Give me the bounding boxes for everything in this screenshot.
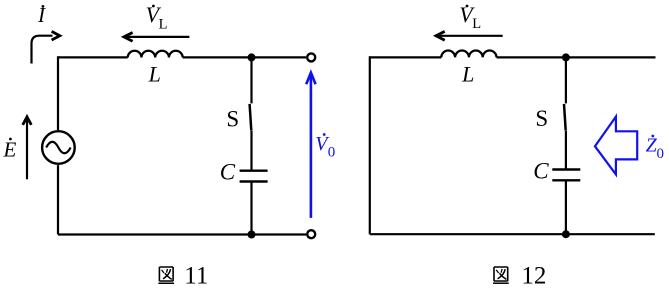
label S (fig11) [226,107,239,132]
label VL dot-V sub L (fig11) [146,2,168,33]
voltage arrow V0 (fig11, blue) [306,73,315,218]
junction node top (fig12) [562,53,570,61]
wire switch-branch upper (fig12) [565,57,567,103]
terminal bottom (fig11) [307,230,315,238]
wire top-left segment (fig11) [58,56,128,58]
terminal top (fig11) [307,53,315,61]
junction node bottom (fig12) [562,230,570,238]
svg-text:L: L [472,16,481,32]
wire bottom (fig12) [370,233,655,235]
svg-text:0: 0 [657,146,665,162]
svg-text:S: S [535,106,548,131]
switch S blade (fig11) [250,104,252,131]
svg-text:L: L [159,17,168,33]
caption glyph 図 (fig11) [158,267,174,283]
current arrow I (fig11) [32,31,60,63]
label I-dot (fig11) [37,3,46,27]
wire left vertical (fig12) [369,56,371,234]
wire capacitor-to-bottom (fig11) [250,181,252,234]
svg-text:L: L [461,61,474,86]
junction node top (fig11) [248,53,256,61]
voltage arrow VL (fig12) [436,31,503,40]
wire switch-to-capacitor (fig12) [565,131,567,170]
value label L (fig11) [148,61,161,86]
value label L (fig12) [461,61,474,86]
svg-text:C: C [533,158,549,183]
label S (fig12) [535,106,548,131]
capacitor C plates (fig12) [552,170,580,181]
label C (fig12) [533,158,549,183]
label VL dot-V sub L (fig12) [459,2,481,32]
svg-text:11: 11 [184,263,208,288]
arrow E reference direction (fig11) [23,117,32,180]
svg-text:0: 0 [328,145,336,161]
AC source E (fig11) [42,131,75,164]
svg-text:12: 12 [521,263,546,288]
label E-dot (fig11) [3,137,17,161]
svg-text:S: S [226,107,239,132]
junction node bottom (fig11) [248,231,256,239]
svg-text:C: C [220,160,236,185]
wire top-right segment (fig11) [183,56,306,58]
svg-text:I: I [37,3,46,27]
label C (fig11) [220,160,236,185]
voltage arrow VL (fig11) [124,33,189,42]
label V0 dot-V sub 0 (fig11, blue) [315,133,335,161]
wire top (fig12) [370,56,442,58]
impedance block arrow Z0 (fig12, blue) [595,117,637,175]
wire left upper segment (fig11) [57,56,59,130]
svg-text:E: E [3,137,17,161]
wire capacitor-to-bottom (fig12) [565,181,567,235]
label Z0 dot-Z sub 0 (fig12, blue) [646,134,664,162]
switch S blade (fig12) [564,104,566,131]
wire bottom (fig11) [58,233,306,235]
wire top-right segment (fig12) [497,56,656,58]
inductor L (fig11) [128,51,183,58]
wire left lower segment (fig11) [57,165,59,234]
caption text 12 (fig12) [521,263,546,288]
capacitor C plates (fig11) [240,171,268,182]
caption text 11 (fig11) [184,263,208,288]
caption glyph 図 (fig12) [493,267,509,283]
wire switch-to-capacitor (fig11) [250,131,252,170]
svg-text:L: L [148,61,161,86]
inductor L (fig12) [441,51,496,58]
wire switch-branch upper (fig11) [250,57,252,103]
